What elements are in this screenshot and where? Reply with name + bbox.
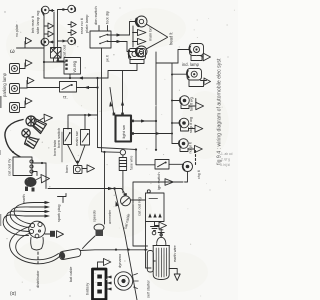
svg-text:main bm: main bm [149,26,153,41]
wire (thin vertical x62) [61,132,63,162]
label (sender text) [93,210,97,222]
wire (bus verticals to light switch) [98,48,125,152]
label (dimmer text) [93,6,110,25]
figure caption (vertical) [217,58,223,165]
ground [82,165,95,172]
wire (V to horn) [68,145,86,164]
wire (lamp L10 loop) [172,74,204,86]
horn assembly (pictorial horns) [22,116,47,149]
label (horn assembly texts) [38,137,57,156]
wire (lamp feeds with arrowheads) [49,8,68,44]
ground [25,38,32,49]
node (distributor dashed lead) [37,252,39,264]
svg-text:no.plate: no.plate [15,24,19,37]
label (side lamps vertical text) [2,72,7,97]
spark plug cable 4 [3,214,50,235]
svg-text:head lt: head lt [169,32,174,45]
svg-text:earth: earth [22,194,26,203]
ground [189,125,203,132]
ground [27,77,34,88]
warning lamp L14 [183,162,193,172]
fuse F1 [119,150,126,193]
lamp L6 (side lamp square 2) [10,84,28,94]
starter motor (pictorial bottle) [153,229,170,280]
svg-text:parking lamp: parking lamp [2,72,7,97]
wire (horizontal feeder y78) [44,76,108,79]
svg-text:speedo: speedo [93,210,97,222]
wire (horizontal y249 to starter) [80,249,147,251]
wire (dynamo to battery leads) [107,276,112,291]
svg-text:distributor: distributor [35,270,40,288]
switch S3 (lighting switch box) [113,113,134,142]
svg-text:foot dip: foot dip [105,10,110,24]
wire (headlamp loop) [127,22,136,52]
lamp L3 (rear lamp) [68,5,76,12]
wire (dimmer outputs with arrowheads) [108,33,130,43]
wire (down run to connector) [104,152,106,224]
svg-text:battery: battery [85,283,90,295]
label (switch pair texts) [56,128,79,148]
wire (parking lamp loop) [108,60,144,79]
wire (bottom-left feeder of cluster) [17,47,45,49]
label (dynamo text) [117,253,122,268]
svg-text:2. ef g: 2. ef g [221,158,230,162]
svg-text:ind. lamp: ind. lamp [182,62,200,67]
ground [133,29,147,35]
svg-text:dim switch: dim switch [93,6,98,25]
svg-text:no.pl lt: no.pl lt [189,141,193,153]
horn LS1 [74,163,83,174]
ground [201,78,211,85]
label (spark plugs text) [57,204,61,222]
wire (switch feeds y115) [68,113,98,129]
lamp L1 (rear lamp top-left) [42,6,50,15]
spark plug cable 1 [14,201,50,224]
regulator U2 (control box right) [137,190,165,222]
svg-text:cut out: cut out [62,44,67,57]
svg-text:μ: μ [38,137,40,141]
capacitor C1 (condenser with ground) [45,231,64,238]
tail lamp L12 (right column 2) [172,118,189,131]
node (dashed marks above lamp) [195,151,197,165]
sender unit (pictorial blob) [83,224,105,248]
label (horn text) [65,165,69,173]
svg-text:side lamp wg: side lamp wg [35,11,40,34]
wire (lamp L9 loop and feed) [178,50,202,64]
label (battery text) [85,283,90,295]
svg-text:earth wire: earth wire [173,245,177,262]
tail lamp L11 (right column 1) [172,96,189,109]
switch S4 (horn switch left) [64,129,72,145]
svg-text:horn twin: horn twin [52,140,57,156]
switch S5 (main switch right) [81,130,90,146]
switch S1 (button switch) [60,82,77,100]
label (coil text) [22,194,26,203]
svg-text:bat cable: bat cable [69,267,73,282]
ignition coil T1 (dark blob) [25,177,41,192]
wire (regulator to bus) [44,60,71,79]
wire (ignition to warning lamp) [169,163,183,165]
ground [45,31,54,37]
label (relay text) [62,44,67,57]
wire (bus bends under light switch) [98,148,156,165]
wire (light switch outputs) [134,119,172,135]
svg-text:light sw: light sw [121,125,126,138]
indicator lamp L10 [187,69,202,81]
wire (HT loop cable 2 to lug) [16,233,59,260]
svg-text:chg lt: chg lt [197,170,201,179]
lamp L8 (parking lamp, top middle) [129,49,146,60]
svg-text:ammeter: ammeter [108,209,112,224]
label (lamp L12 text) [189,117,193,133]
label (small vertical near left) [15,24,19,37]
spark plug cable 3 [6,210,50,232]
distributor (pictorial cap and body) [29,221,46,250]
headlamp E1 [136,16,147,27]
svg-text:tail lt wg: tail lt wg [190,97,194,111]
ground [25,98,32,108]
ground [169,269,180,281]
dimmer switch S2 [90,26,111,49]
ground [68,30,76,36]
label (head lamp apex text) [169,32,174,45]
battery BT1 [93,269,107,300]
svg-text:main sw: main sw [74,131,79,146]
wire (ammeter to regulator) [131,199,146,201]
wire (bus verticals of lamp cluster) [54,10,58,61]
ignition switch S6 [155,160,169,191]
wire (long feeder y188.5) [48,187,124,193]
svg-text:plate lamp: plate lamp [84,14,89,33]
wire (coil lead goalpost) [58,194,67,203]
wire (ignition run down to solenoid) [144,222,151,269]
ground [68,22,76,28]
label (distributor text) [35,270,40,288]
legend (small right notes) [220,152,233,167]
battery ground [98,259,111,270]
wire (left vertical x44) [43,14,45,79]
scan smudges [0,7,229,296]
cable lug (battery cable end) [59,249,80,260]
svg-text:pk.lt: pk.lt [106,55,110,62]
svg-text:dynamo: dynamo [117,253,122,268]
wire (battery cable diagonal) [115,189,138,300]
wire (HT loop cable 1 to lug) [10,227,60,264]
scan noise [6,10,235,297]
lamp L2 (rear lamp) [41,38,49,46]
svg-text:ττ.: ττ. [63,95,68,100]
wire (right feed bus) [155,52,178,151]
lamp L7 (side lamp square 3) [10,103,26,113]
label (rear lamp text left column) [30,11,40,34]
label (lamp L11 text) [190,97,194,111]
wire (cutout feeds) [33,162,46,189]
label (lamp L13 text) [189,141,193,153]
lamp L4 (rear lamp) [68,37,76,44]
ground [133,38,147,44]
svg-text:self starter: self starter [147,280,151,298]
svg-text:spark plug: spark plug [57,204,61,222]
ground [188,145,202,152]
label (indicator lamps horizontal text) [182,62,200,67]
label (fuse wire text) [130,156,134,170]
label (battery cable text) [124,213,131,229]
svg-text:vo.reg: vo.reg [72,60,77,72]
regulator U1 (voltage regulator box) [64,58,81,75]
svg-text:3. hij kl: 3. hij kl [220,163,230,167]
label (cable lug text) [69,267,73,282]
wire (horizontal feeder y87.5) [27,86,99,89]
svg-text:(α): (α) [10,291,17,297]
ground [165,179,174,186]
wire (horn loop cable) [5,120,23,157]
lamp L5 (side lamp square 1) [10,64,26,74]
svg-text:ω: ω [10,49,15,55]
label (rear lamp text right column) [79,14,89,34]
ground [151,222,167,235]
svg-text:fig 9.4 : wiring diagram of au: fig 9.4 : wiring diagram of automobile e… [217,58,223,165]
label (between lamps) [149,26,153,41]
solenoid (starter switch) [147,251,155,273]
ground [189,99,204,110]
headlamp E2 [136,46,147,57]
ground [25,60,32,69]
label (charge lamp text) [197,170,201,179]
cutout relay K2 (box with terminals) [7,157,34,176]
ground [41,175,50,183]
svg-text:cut out rly: cut out rly [7,159,12,176]
dynamo G1 (concentric circles) [114,272,138,290]
ground [45,23,54,29]
spark plug cable 2 [10,205,50,227]
relay K1 (cutout small hatched box) [51,47,62,62]
svg-text:fuse wire: fuse wire [130,156,134,170]
ammeter M1 [121,193,131,206]
svg-text:horn: horn [65,165,69,173]
label (a) [10,291,17,297]
tail lamp L13 (right column 3) [172,139,188,152]
label (starter texts) [147,245,178,298]
wire (triangle to apex) [147,24,168,49]
ground [38,114,53,121]
label (parking lamp tiny text) [106,55,110,62]
svg-text:ign switch: ign switch [156,172,161,190]
label (ammeter text) [108,209,112,224]
svg-text:stop lt wg: stop lt wg [189,117,193,133]
label (b) [10,49,15,55]
indicator lamp L9 (top right) [189,44,203,56]
ground [200,53,211,61]
svg-text:1. ab cd: 1. ab cd [221,152,233,156]
wire (warning lamp down run) [133,172,188,247]
